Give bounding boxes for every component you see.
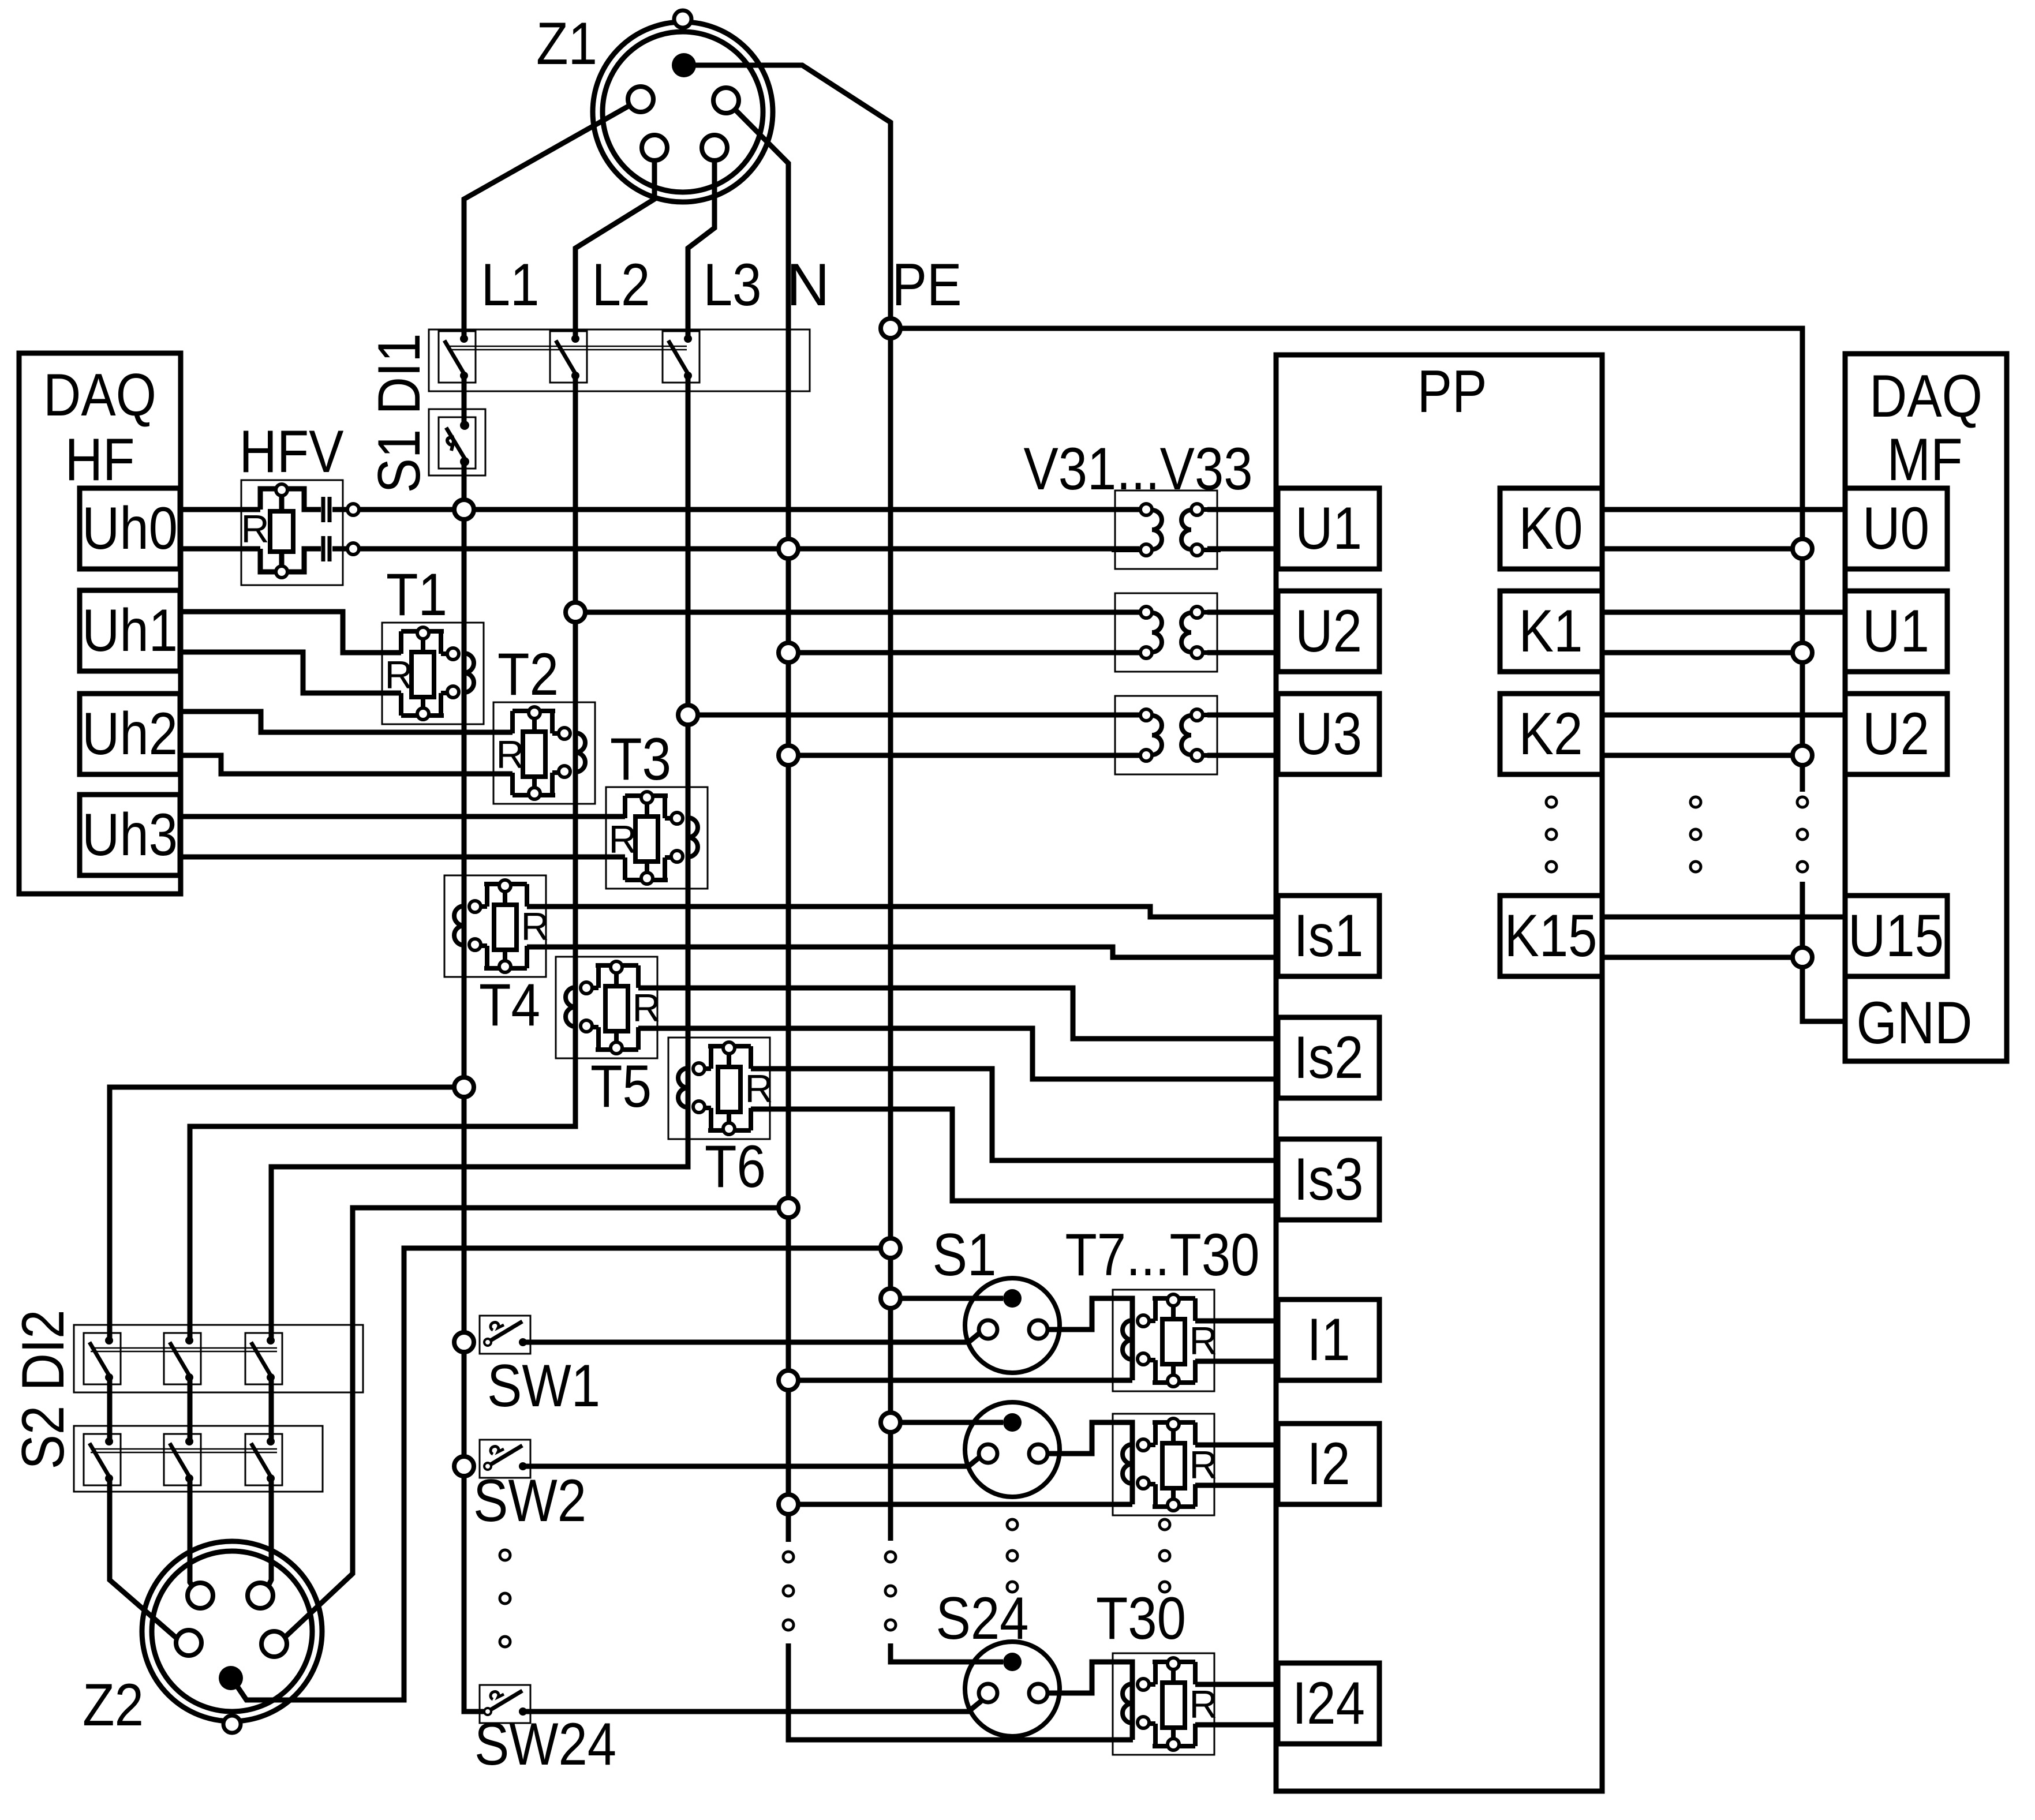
svg-text:S1: S1 [933,1222,997,1289]
svg-text:T6: T6 [705,1133,766,1200]
svg-text:T3: T3 [610,726,671,793]
svg-text:Z1: Z1 [536,10,597,77]
svg-text:Uh0: Uh0 [82,495,178,562]
svg-text:R: R [241,507,269,551]
svg-text:PE: PE [892,252,962,319]
svg-text:K0: K0 [1519,495,1583,562]
svg-text:T7...T30: T7...T30 [1065,1222,1260,1289]
svg-text:DAQ: DAQ [43,362,156,429]
svg-text:SW2: SW2 [473,1467,586,1534]
svg-text:V31...V33: V31...V33 [1024,436,1253,503]
svg-text:R: R [496,733,524,777]
svg-text:U0: U0 [1862,495,1929,562]
svg-text:N: N [786,252,829,319]
svg-text:DAQ: DAQ [1869,363,1982,430]
svg-text:K15: K15 [1505,902,1598,969]
svg-text:T30: T30 [1096,1585,1186,1652]
svg-text:SW24: SW24 [474,1711,616,1778]
svg-text:K2: K2 [1519,701,1583,767]
svg-text:L1: L1 [481,252,540,319]
svg-text:T1: T1 [386,561,447,628]
svg-text:I2: I2 [1307,1430,1351,1497]
svg-text:Uh3: Uh3 [82,802,178,868]
svg-text:U3: U3 [1295,701,1362,767]
svg-text:R: R [632,986,660,1030]
svg-text:Is2: Is2 [1294,1024,1364,1091]
svg-text:R: R [521,905,549,949]
svg-text:Is3: Is3 [1294,1146,1364,1213]
svg-text:R: R [1189,1683,1217,1727]
svg-text:I1: I1 [1307,1306,1351,1373]
svg-text:T5: T5 [590,1053,652,1120]
svg-text:R: R [608,818,637,862]
svg-text:Z2: Z2 [83,1672,144,1739]
svg-text:T2: T2 [497,641,559,708]
svg-text:SW1: SW1 [487,1353,600,1420]
svg-text:GND: GND [1857,990,1973,1057]
svg-text:U1: U1 [1862,598,1929,665]
svg-text:MF: MF [1887,426,1963,493]
svg-text:S1 DI1: S1 DI1 [366,334,433,493]
svg-text:U2: U2 [1862,701,1929,767]
svg-text:U1: U1 [1295,495,1362,562]
svg-text:R: R [745,1067,773,1111]
svg-text:R: R [384,653,413,697]
svg-text:HF: HF [65,426,135,493]
svg-text:K1: K1 [1519,598,1583,665]
svg-text:R: R [1189,1443,1217,1487]
svg-text:Uh1: Uh1 [82,597,178,664]
svg-text:Uh2: Uh2 [82,701,178,767]
svg-text:T4: T4 [479,972,540,1039]
svg-text:HFV: HFV [240,418,344,485]
svg-text:Is1: Is1 [1294,902,1364,969]
svg-text:PP: PP [1417,358,1487,425]
svg-text:R: R [1189,1319,1217,1363]
svg-text:U2: U2 [1295,598,1362,665]
svg-text:S24: S24 [936,1585,1029,1652]
svg-text:L2: L2 [592,252,650,319]
svg-text:L3: L3 [704,252,762,319]
svg-text:I24: I24 [1292,1670,1365,1737]
svg-text:S2 DI2: S2 DI2 [10,1310,77,1470]
svg-text:U15: U15 [1848,902,1944,969]
